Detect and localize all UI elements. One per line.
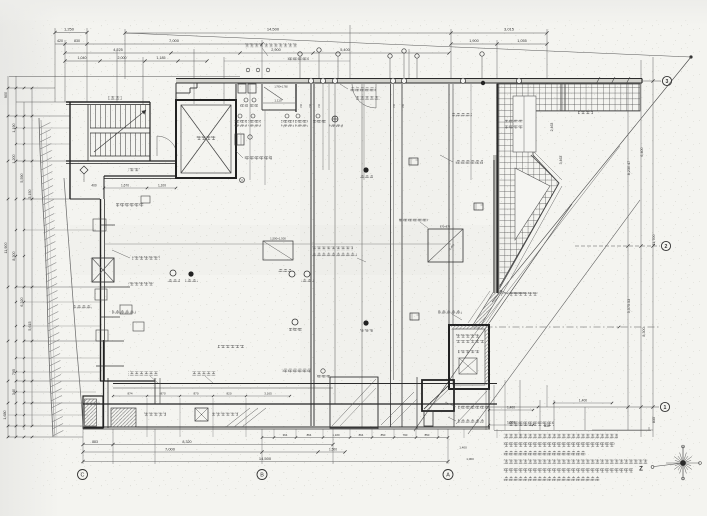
svg-text:1,000: 1,000 xyxy=(466,457,474,461)
svg-text:150: 150 xyxy=(318,103,321,108)
boundary inner wavy xyxy=(64,178,83,428)
left wall column bottom xyxy=(103,340,105,428)
stair treads lower xyxy=(90,133,92,156)
grid line 3 xyxy=(592,80,661,82)
alcove door diagonal xyxy=(264,87,283,100)
sink appliance xyxy=(235,134,244,145)
stub y317 xyxy=(100,316,120,318)
step room A inner xyxy=(453,329,485,385)
elevator outer xyxy=(176,100,236,178)
skylight box xyxy=(263,241,293,260)
storefront glazing line xyxy=(113,383,497,385)
svg-text:1: 1 xyxy=(664,405,667,411)
elevator label xyxy=(196,136,216,140)
svg-text:364: 364 xyxy=(283,433,288,437)
diagonal D4 xyxy=(468,200,640,434)
left lower wall xyxy=(70,198,100,200)
stair bottom wall xyxy=(66,160,176,162)
interior pair x390 xyxy=(390,84,392,427)
svg-text:835: 835 xyxy=(652,417,656,423)
lower hatch band xyxy=(473,291,502,325)
wall opening circles xyxy=(308,78,313,83)
grid circle C xyxy=(78,470,88,480)
boundary mid line xyxy=(46,130,57,437)
lower right cell xyxy=(454,389,489,427)
ceiling text xyxy=(311,247,353,251)
stair landing xyxy=(90,127,150,129)
elevator cross xyxy=(181,105,231,173)
wall turn bottom xyxy=(100,380,155,382)
label PB125 toilets xyxy=(244,156,272,160)
boundary outer wavy xyxy=(39,118,53,437)
svg-text:1,780×1,780: 1,780×1,780 xyxy=(274,86,288,89)
svg-text:6,320: 6,320 xyxy=(20,297,24,306)
stair label xyxy=(108,96,122,100)
svg-text:1,200: 1,200 xyxy=(12,154,16,163)
storefront extension verticals xyxy=(146,398,148,437)
balcony left box xyxy=(83,396,103,428)
svg-text:150: 150 xyxy=(300,103,303,108)
symbol pair mid-right xyxy=(289,271,295,277)
cross circle symbol xyxy=(332,116,338,122)
grid circle A xyxy=(443,470,453,480)
balcony floor band xyxy=(83,403,497,405)
svg-text:4,225: 4,225 xyxy=(113,48,123,52)
bottom dim row 14500 xyxy=(83,461,448,463)
svg-text:11,700: 11,700 xyxy=(652,234,656,245)
svg-text:6,400: 6,400 xyxy=(640,147,644,156)
svg-text:900: 900 xyxy=(4,92,8,98)
balcony label xyxy=(144,413,166,417)
dot upper-mid xyxy=(363,167,368,172)
step room stub xyxy=(424,411,433,426)
svg-text:8,320: 8,320 xyxy=(182,440,191,444)
svg-text:7,000: 7,000 xyxy=(169,38,180,43)
svg-text:400: 400 xyxy=(91,184,97,188)
svg-text:820: 820 xyxy=(226,392,231,396)
leader lines storefront xyxy=(150,376,158,383)
label PB right of EV xyxy=(455,160,483,164)
diagonal D3 xyxy=(470,146,620,340)
label PB left xyxy=(116,203,144,207)
laundry label xyxy=(74,305,92,308)
svg-text:864: 864 xyxy=(359,433,364,437)
main diagonal D1 xyxy=(492,57,691,302)
svg-text:1,400: 1,400 xyxy=(459,445,467,449)
svg-text:3,463: 3,463 xyxy=(559,156,563,165)
top dim row3 xyxy=(65,52,449,54)
svg-text:1,190: 1,190 xyxy=(12,123,16,132)
washbasin circles xyxy=(244,98,248,102)
circled number small xyxy=(240,178,245,183)
label top wall right xyxy=(350,88,376,92)
step room B diagonal xyxy=(424,385,449,409)
svg-text:5,590: 5,590 xyxy=(20,173,24,182)
step labels right xyxy=(458,405,488,409)
svg-text:1,250: 1,250 xyxy=(64,26,75,31)
svg-text:790: 790 xyxy=(403,433,408,437)
left dim verticals xyxy=(7,76,9,437)
wall slashes right xyxy=(596,77,600,84)
interior thin verticals xyxy=(249,84,251,180)
svg-text:870: 870 xyxy=(160,392,165,396)
svg-text:150: 150 xyxy=(309,103,312,108)
hatch mullion xyxy=(560,84,562,111)
appliance boxes xyxy=(409,158,418,165)
bottom dim row 883 xyxy=(83,444,333,446)
left dim ticks xyxy=(8,87,55,89)
diagonal D2 xyxy=(414,204,572,431)
grid line 2 xyxy=(575,245,660,247)
label PB left2 xyxy=(132,256,160,260)
svg-text:2: 2 xyxy=(665,244,668,250)
ceiling zone line xyxy=(104,243,451,245)
hatch mullion xyxy=(560,84,562,111)
fixture boxes left xyxy=(120,305,132,314)
svg-text:864: 864 xyxy=(307,433,312,437)
hatch label xyxy=(212,413,238,416)
label PB lower-left wall xyxy=(128,282,154,285)
crosshatch band xyxy=(497,84,640,291)
svg-text:1,110: 1,110 xyxy=(274,99,282,103)
hatch inner white rect xyxy=(513,96,536,152)
top extension lines xyxy=(54,28,56,102)
skylight box 2 xyxy=(428,229,463,262)
svg-text:874: 874 xyxy=(127,392,132,396)
dim 1400 upper right xyxy=(554,402,612,404)
top dim 14500 3015 xyxy=(125,32,547,34)
small circles y70 xyxy=(246,68,250,72)
lower right walls xyxy=(488,389,490,429)
svg-text:1,100: 1,100 xyxy=(158,184,166,188)
svg-text:870: 870 xyxy=(193,392,198,396)
interior line x471 xyxy=(470,84,472,180)
right dim vertical x641 xyxy=(640,60,642,437)
svg-text:8,230.47: 8,230.47 xyxy=(627,161,631,175)
top dim 1250 xyxy=(55,32,87,34)
labels above storefront xyxy=(128,372,158,376)
corridor label xyxy=(128,168,140,172)
stair outer wall xyxy=(66,101,150,103)
elevator inner xyxy=(181,105,231,173)
stub y287 xyxy=(100,286,130,288)
svg-text:5,575.53: 5,575.53 xyxy=(627,299,631,313)
bottom dim mini cluster xyxy=(262,437,448,439)
top row4 extension xyxy=(224,60,350,62)
svg-text:3,150: 3,150 xyxy=(28,189,32,198)
step room A wall hatch xyxy=(451,326,487,330)
top small note xyxy=(245,43,297,47)
svg-text:7,000: 7,000 xyxy=(165,447,176,452)
concrete label xyxy=(399,218,428,221)
svg-text:5,400: 5,400 xyxy=(340,48,350,52)
long dash line y327 xyxy=(472,326,660,328)
svg-text:8,300: 8,300 xyxy=(642,327,646,336)
svg-text:2,463: 2,463 xyxy=(550,123,554,132)
storefront dims xyxy=(113,395,290,397)
notes text lines xyxy=(503,434,618,439)
svg-text:1,400: 1,400 xyxy=(507,406,515,410)
right dim vertical x653 xyxy=(652,57,654,437)
svg-text:1,670: 1,670 xyxy=(121,184,129,188)
hatch access box xyxy=(195,408,208,421)
svg-text:3,165: 3,165 xyxy=(264,392,272,396)
step room A labels xyxy=(456,334,480,338)
step room A fixture xyxy=(459,358,477,374)
svg-text:3: 3 xyxy=(666,79,669,85)
boundary hatch ticks xyxy=(39,123,50,129)
right dim vertical x628 xyxy=(627,80,629,430)
north star xyxy=(683,462,700,464)
svg-text:11,900: 11,900 xyxy=(4,242,8,253)
grid circle B xyxy=(257,470,267,480)
svg-text:1,680: 1,680 xyxy=(3,410,7,419)
sight line to apex xyxy=(125,33,691,57)
svg-text:795: 795 xyxy=(12,369,16,375)
hall door arc xyxy=(352,84,376,108)
svg-text:870×870: 870×870 xyxy=(440,225,451,229)
toilet alcove walls xyxy=(261,84,263,110)
svg-text:830: 830 xyxy=(74,39,80,43)
stair cage xyxy=(87,104,89,161)
top dim row2 xyxy=(55,43,87,45)
labels near hatch left xyxy=(452,113,472,116)
step room B outer xyxy=(422,380,454,411)
svg-text:1,055: 1,055 xyxy=(517,39,527,43)
grid circle 3 xyxy=(662,76,671,85)
svg-text:Z: Z xyxy=(639,466,643,473)
walkway diagonals xyxy=(381,392,414,425)
svg-text:1,500×1,500: 1,500×1,500 xyxy=(270,237,286,241)
duct shaft xyxy=(92,258,114,282)
fixture circles row xyxy=(238,114,242,118)
svg-text:340: 340 xyxy=(12,389,16,395)
svg-text:850: 850 xyxy=(381,433,386,437)
bottom extension lines xyxy=(82,429,84,464)
step area dims xyxy=(489,409,533,411)
svg-text:1,185: 1,185 xyxy=(157,56,166,60)
scan shade bands xyxy=(300,80,460,430)
svg-text:850: 850 xyxy=(425,433,430,437)
elevator connectors xyxy=(175,84,177,100)
label PB step right xyxy=(510,292,538,296)
right lower ticks xyxy=(592,429,653,431)
svg-text:C: C xyxy=(81,472,85,478)
symbol pair mid-left xyxy=(170,270,176,276)
svg-text:420: 420 xyxy=(57,39,63,43)
notes underline xyxy=(494,430,651,432)
svg-text:14,500: 14,500 xyxy=(267,27,280,32)
wall end dot xyxy=(481,81,485,85)
top dim row4 xyxy=(65,60,207,62)
interior pair x449 xyxy=(448,84,450,325)
right bay xyxy=(330,377,378,428)
svg-text:A: A xyxy=(446,472,450,478)
interior pair x311 xyxy=(310,84,312,426)
label alumi left xyxy=(112,310,136,314)
wall left end notch xyxy=(175,83,177,93)
apex point xyxy=(689,55,692,58)
stair treads upper xyxy=(90,105,92,128)
diamond symbol xyxy=(80,166,88,174)
site boundary line top xyxy=(9,76,240,78)
labels top toilets xyxy=(287,57,309,60)
vent symbols xyxy=(298,52,302,56)
top exterior wall xyxy=(176,79,642,83)
wedge white triangle xyxy=(515,168,550,240)
grid circle 1 xyxy=(660,402,669,411)
svg-text:5,615: 5,615 xyxy=(28,321,32,330)
label concrete lower xyxy=(218,345,244,348)
north arrow line xyxy=(654,463,683,467)
alcove inner line xyxy=(263,102,295,104)
svg-text:883: 883 xyxy=(92,440,98,444)
corridor dims xyxy=(104,187,176,189)
walkway verticals xyxy=(377,377,379,429)
step room A outer xyxy=(449,325,489,389)
ramp diagonals xyxy=(226,408,250,427)
symbol pair lower-mid xyxy=(292,319,298,325)
svg-text:1,400: 1,400 xyxy=(579,399,587,403)
label aluminum mid right xyxy=(438,310,462,314)
bottom dim row 7000 xyxy=(83,451,345,453)
svg-text:150: 150 xyxy=(402,103,405,108)
corridor door arc xyxy=(157,136,177,156)
stair arrow xyxy=(94,110,146,152)
svg-text:1,900: 1,900 xyxy=(469,39,479,43)
grid line 1 xyxy=(488,406,659,408)
svg-text:1,100: 1,100 xyxy=(332,433,340,437)
partition x497 thick xyxy=(493,155,500,293)
svg-text:2,900: 2,900 xyxy=(271,48,281,52)
svg-text:B: B xyxy=(260,472,264,478)
svg-text:3,015: 3,015 xyxy=(504,27,515,32)
corridor bottom wall xyxy=(104,175,176,177)
stub y366 xyxy=(96,365,124,367)
grid circle 2 xyxy=(661,241,670,250)
stub y341 xyxy=(100,340,124,342)
stub y225 xyxy=(100,224,115,226)
hatch label xyxy=(578,111,593,115)
svg-text:14,500: 14,500 xyxy=(259,456,272,461)
balcony hatch box xyxy=(111,408,136,427)
vertical x585 lower xyxy=(584,407,586,430)
toilet stalls xyxy=(238,84,246,93)
svg-text:1,040: 1,040 xyxy=(78,56,87,60)
wedge outline xyxy=(531,155,559,183)
notes title xyxy=(508,422,554,427)
svg-text:8,300: 8,300 xyxy=(12,251,16,260)
